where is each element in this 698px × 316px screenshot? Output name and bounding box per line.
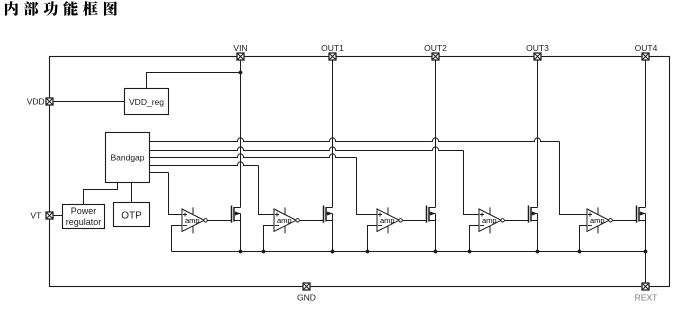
op-amp amp2 triangle (274, 209, 296, 232)
amp1 output bubble (204, 219, 207, 222)
transistor Q3 (427, 57, 436, 252)
svg-text:OUT4: OUT4 (635, 43, 658, 53)
wire amp4 output to Q4 gate (504, 220, 528, 222)
pin OUT3 pad (534, 53, 541, 60)
transistor Q4 (529, 57, 538, 252)
junction node VDD_reg-VIN (239, 71, 243, 75)
svg-text:Bandgap: Bandgap (110, 153, 144, 163)
chip outline (50, 57, 670, 287)
bandgap bias bus line 2 (150, 147, 464, 151)
amp5 output bubble (609, 219, 612, 222)
svg-text:amp: amp (590, 216, 605, 225)
transistor Q5 (637, 57, 646, 252)
title 内部功能框图 (5, 1, 117, 16)
svg-text:VT: VT (30, 211, 41, 221)
wire VT pin to Power regulator (53, 215, 62, 217)
op-amp amp1 triangle (182, 209, 204, 232)
wire bias bus to amp1 + input (169, 173, 183, 215)
pin GND pad (303, 283, 310, 290)
junction node on rail 8 (578, 250, 582, 254)
amp2 + input mark (275, 213, 279, 217)
wire bias bus to amp5 + input (560, 142, 588, 215)
svg-text:GND: GND (297, 292, 316, 302)
block U2 Bandgap (106, 133, 150, 183)
amp3 - input mark (378, 225, 382, 227)
wire amp1 output to Q1 gate (207, 220, 231, 222)
wire VDD pin to VDD_reg (53, 101, 124, 103)
pin OUT1 pad (329, 53, 336, 60)
bandgap bias bus line 3 (150, 154, 357, 158)
svg-text:VIN: VIN (233, 43, 247, 53)
amp5 - input mark (588, 225, 592, 227)
pin VDD pad (46, 98, 53, 105)
block U3 Power regulator (63, 205, 105, 229)
wire amp2 output to Q2 gate (299, 220, 323, 222)
op-amp amp4 triangle (479, 209, 501, 232)
svg-text:regulator: regulator (66, 217, 102, 227)
svg-text:OUT2: OUT2 (424, 43, 447, 53)
junction node on rail 2 (262, 250, 266, 254)
bias line crossing amp4 (489, 207, 491, 233)
amp1 - input mark (183, 225, 187, 227)
wire bias bus to amp4 + input (464, 151, 480, 215)
common source rail (172, 251, 646, 253)
pin VT pad (46, 212, 53, 219)
wire bias bus to amp2 + input (259, 166, 275, 215)
wire amp3 - input feedback to source rail (368, 226, 378, 252)
junction node on rail 5 (434, 250, 438, 254)
bias line crossing amp2 (284, 207, 286, 233)
svg-text:OUT3: OUT3 (526, 43, 549, 53)
svg-text:VDD_reg: VDD_reg (129, 97, 164, 107)
bias line crossing amp1 (192, 207, 194, 233)
wire amp1 - input feedback to source rail (172, 226, 183, 252)
op-amp amp5 triangle (587, 209, 609, 232)
amp3 + input mark (378, 213, 382, 217)
svg-text:VDD: VDD (27, 96, 45, 106)
transistor Q2 (324, 57, 333, 252)
bias line crossing amp5 (597, 207, 599, 233)
wire Power regulator to Bandgap (84, 183, 118, 205)
bias line crossing amp3 (387, 207, 389, 233)
transistor Q1 (232, 57, 241, 252)
amp1 + input mark (183, 213, 187, 217)
junction node on rail 3 (331, 250, 335, 254)
svg-text:REXT: REXT (635, 293, 658, 303)
amp4 - input mark (480, 225, 484, 227)
svg-text:OUT1: OUT1 (321, 43, 344, 53)
junction node on rail 9 (644, 250, 648, 254)
wire Bandgap to OTP (131, 183, 133, 203)
pin VIN pad (237, 53, 244, 60)
wire rail to REXT pin (645, 252, 647, 287)
svg-text:Power: Power (71, 206, 97, 216)
block U4 OTP (114, 203, 150, 227)
junction node on rail 1 (239, 250, 243, 254)
wire amp3 output to Q3 gate (402, 220, 426, 222)
amp3 output bubble (399, 219, 402, 222)
block U1 VDD_reg (125, 89, 169, 115)
op-amp amp3 triangle (377, 209, 399, 232)
amp2 output bubble (296, 219, 299, 222)
junction node on rail 4 (366, 250, 370, 254)
wire amp5 - input feedback to source rail (580, 226, 588, 252)
wire bias bus to amp3 + input (357, 158, 378, 215)
wire VDD_reg to VIN line (147, 73, 241, 89)
bandgap bias bus line 5 (150, 172, 169, 174)
wire amp2 - input feedback to source rail (264, 226, 275, 252)
wire amp4 - input feedback to source rail (470, 226, 480, 252)
svg-text:OTP: OTP (121, 210, 142, 221)
svg-text:amp: amp (380, 216, 395, 225)
svg-text:amp: amp (277, 216, 292, 225)
amp4 + input mark (480, 213, 484, 217)
pin OUT4 pad (642, 53, 649, 60)
svg-text:amp: amp (185, 216, 200, 225)
junction node on rail 7 (536, 250, 540, 254)
pin OUT2 pad (432, 53, 439, 60)
bandgap bias bus line 1 (150, 138, 560, 142)
amp5 + input mark (588, 213, 592, 217)
svg-text:amp: amp (482, 216, 497, 225)
amp4 output bubble (501, 219, 504, 222)
pin REXT pad (642, 283, 649, 290)
amp2 - input mark (275, 225, 279, 227)
bandgap bias bus line 4 (150, 162, 259, 166)
junction node on rail 6 (468, 250, 472, 254)
wire amp5 output to Q5 gate (612, 220, 636, 222)
